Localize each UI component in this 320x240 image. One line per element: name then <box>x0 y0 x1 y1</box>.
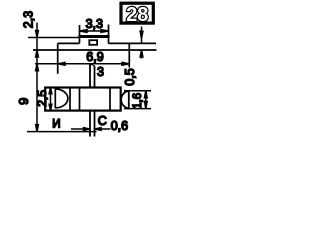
node index mark on tab <box>89 40 97 45</box>
dimension 1,6 <box>132 91 147 109</box>
svg-text:0,5: 0,5 <box>123 68 137 85</box>
svg-text:И: И <box>52 118 60 130</box>
svg-text:28: 28 <box>126 4 148 26</box>
svg-text:С: С <box>98 114 107 128</box>
svg-text:3,3: 3,3 <box>86 17 103 31</box>
svg-text:1,6: 1,6 <box>132 93 144 109</box>
svg-text:6,9: 6,9 <box>86 50 103 64</box>
node figure number box 28 <box>121 3 153 26</box>
wire body division 3 <box>109 88 111 111</box>
svg-text:2,3: 2,3 <box>21 11 35 28</box>
node right D-notch (collector pad) <box>121 91 129 109</box>
svg-text:2,5: 2,5 <box>35 90 49 107</box>
wire 1,6 extension bottom <box>124 108 151 110</box>
wire body left edge top view <box>57 43 59 73</box>
dimension 0,5 arrows <box>123 27 143 86</box>
wire body division 1 <box>69 88 71 111</box>
wire tab right side / 3,3 extension <box>108 25 110 44</box>
dimension 0,6 <box>71 119 128 133</box>
wire tab left side / 3,3 extension <box>79 25 81 43</box>
wire tab top edge thick <box>78 35 109 38</box>
wire lower edge line L2 (y=50) <box>33 49 157 51</box>
wire top-view body top edge left extension (y=37.5) <box>28 37 80 39</box>
svg-text:0,6: 0,6 <box>111 119 128 133</box>
dimension 3,3 line <box>80 17 109 32</box>
node gate lead (up) <box>90 64 95 88</box>
wire 1,6 extension top <box>124 90 151 92</box>
node drain lead (down) <box>90 111 95 137</box>
wire body right edge top view <box>128 43 130 67</box>
dimension 6,9 line shared with 9 top extension <box>35 50 129 65</box>
node package body bottom view <box>45 88 121 111</box>
wire body division 2 <box>79 88 81 111</box>
dimension 2,3 and 9 vertical line <box>16 11 38 132</box>
wire body top edge left segment (y=43.4) <box>58 42 80 44</box>
wire bottom extension line y=131.8 <box>27 131 97 133</box>
transistor package outline drawing, figure 28 <box>0 0 240 140</box>
node D-notch <box>55 89 68 109</box>
svg-text:9: 9 <box>16 98 31 105</box>
dimension 2,5 <box>35 88 52 111</box>
svg-text:3: 3 <box>97 65 104 79</box>
wire body top edge right segment extended (y=43.4) <box>109 42 157 44</box>
